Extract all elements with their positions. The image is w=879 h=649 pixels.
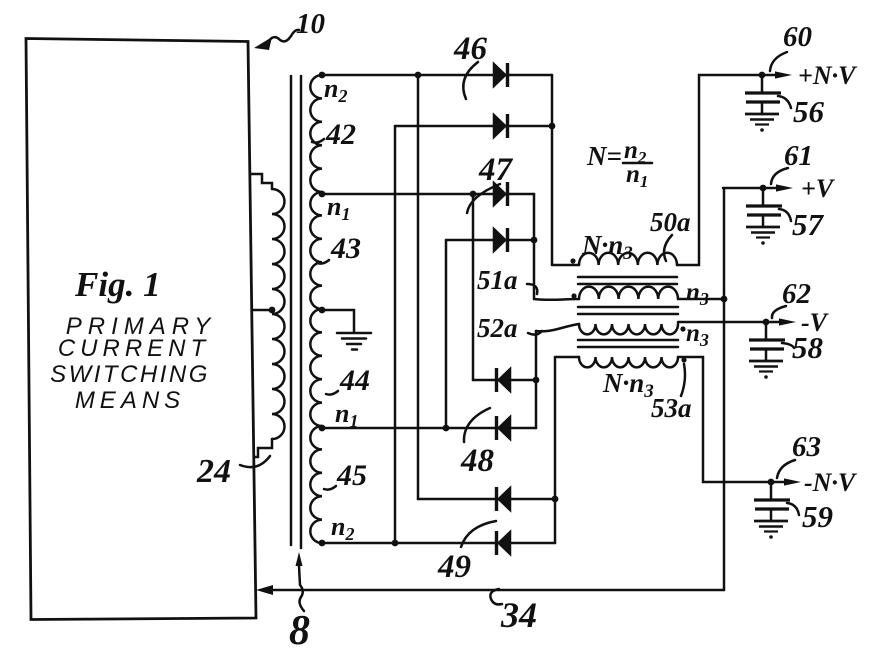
- leader 51a: [527, 284, 537, 294]
- svg-text:52a: 52a: [477, 313, 518, 343]
- wire: lead to winding 53a: [555, 356, 579, 359]
- wire: diode pair 46 common vertical: [551, 75, 554, 265]
- diode 48a: [497, 368, 511, 392]
- junction: primary center tap: [269, 307, 276, 314]
- svg-text:43: 43: [330, 232, 361, 265]
- svg-text:58: 58: [792, 330, 824, 365]
- coupled core bars 3a: [578, 339, 678, 342]
- wire row6: n1-bottom tap to diode 48b: [322, 427, 497, 430]
- junction: secondary center tap: [319, 307, 326, 314]
- svg-text:SWITCHING: SWITCHING: [50, 361, 210, 388]
- capacitor 57 with ground: [746, 188, 782, 245]
- arrow output 60: [762, 71, 792, 78]
- wire: secondary center tap to ground: [322, 310, 354, 332]
- diode 47a: [494, 182, 508, 206]
- leader 63: [777, 460, 795, 478]
- transformer core line 2: [300, 76, 303, 548]
- wire: 50a to +N.V rail: [677, 75, 762, 265]
- arrow output 63: [771, 478, 801, 485]
- leader arc 46: [463, 62, 478, 99]
- winding 50a (N*n3): [579, 253, 677, 265]
- diode 49a: [497, 487, 511, 511]
- wire row7: diode 49a to common: [510, 498, 555, 501]
- svg-text:57: 57: [792, 207, 825, 242]
- primary winding of transformer: [272, 189, 285, 439]
- capacitor 59 with ground: [754, 482, 790, 539]
- wire row5: diode 48a to common: [510, 379, 536, 382]
- wire row1: diode 46a to common: [507, 74, 552, 77]
- svg-text:47: 47: [478, 152, 514, 188]
- wire row3: diode 47a to common: [507, 193, 534, 196]
- leader 53a: [681, 364, 685, 396]
- wire: +V feed vertical: [723, 188, 726, 590]
- terminal junction 61: [760, 185, 767, 192]
- wire: lead to winding 50a: [552, 264, 579, 267]
- arrow output 62: [766, 318, 796, 325]
- arrowhead into box: [256, 585, 273, 595]
- terminal junction 62: [763, 319, 770, 326]
- polarity dot 52a: [680, 326, 685, 331]
- leader 50a: [664, 235, 672, 261]
- wire row8: n2-bottom to diode 49b: [322, 542, 497, 545]
- junction row2-common: [549, 123, 556, 130]
- capacitor 58 with ground: [749, 322, 785, 379]
- wire row3: n1-top tap to diode 47a: [322, 193, 494, 196]
- box: primary current switching means (10): [26, 39, 256, 620]
- svg-text:48: 48: [460, 443, 494, 479]
- wire row2-output: pair47 down to +V: [723, 187, 763, 190]
- wire: n2-top to diode row7 (vertical): [417, 75, 420, 499]
- wire: box to primary top: [250, 174, 272, 189]
- svg-text:56: 56: [793, 94, 825, 129]
- diode 49b: [497, 531, 511, 555]
- junction on row1: [415, 72, 422, 79]
- wire: diode pair 48 common vertical: [535, 331, 538, 428]
- wire row8: diode 49b to common: [510, 542, 555, 545]
- svg-text:49: 49: [437, 549, 471, 585]
- wire: n1-top to diode row5 (vertical): [472, 194, 475, 380]
- leader 58: [782, 343, 794, 348]
- wire: diode pair 49 common vertical: [554, 357, 557, 543]
- svg-text:Fig. 1: Fig. 1: [74, 265, 161, 304]
- wire: primary center tap: [252, 309, 272, 312]
- terminal junction 63: [768, 479, 775, 486]
- svg-text:46: 46: [453, 31, 488, 67]
- junction row7-common: [552, 496, 559, 503]
- wire 34: feedback from +V to box: [272, 589, 724, 592]
- svg-text:+N·V: +N·V: [798, 61, 858, 90]
- svg-text:10: 10: [296, 8, 325, 40]
- polarity dot 50a: [570, 258, 575, 263]
- svg-text:42: 42: [325, 118, 356, 151]
- leader 59: [787, 503, 799, 515]
- leader dash 45: [324, 486, 336, 490]
- diode 47b: [494, 228, 508, 252]
- svg-text:45: 45: [336, 459, 367, 492]
- wire row7: corner to diode 49a: [418, 498, 497, 501]
- winding 52a (n3): [579, 324, 678, 334]
- leader from 24 to primary: [240, 456, 270, 467]
- svg-text:CURRENT: CURRENT: [58, 335, 210, 362]
- wire: 52a to -V terminal: [678, 321, 766, 324]
- junction on row3: [470, 191, 477, 198]
- leader dash 43: [317, 260, 329, 264]
- secondary winding (sections 42/43/44/45): [310, 75, 322, 543]
- arrow output 61: [763, 184, 793, 191]
- leader arc 48: [464, 408, 490, 442]
- terminal junction 60: [759, 72, 766, 79]
- winding 51a (n3): [579, 287, 678, 299]
- leader 61: [771, 168, 788, 184]
- svg-text:60: 60: [783, 21, 812, 53]
- wire: lead to winding 51a: [534, 298, 579, 301]
- junction: n1-bottom tap: [319, 425, 326, 432]
- svg-text:-N·V: -N·V: [804, 468, 858, 497]
- wire: 53a right lead down to -N.V: [678, 357, 771, 482]
- svg-text:59: 59: [802, 499, 833, 534]
- ground symbol (secondary center): [337, 333, 371, 350]
- wire row1: n2-top to diode 46a: [322, 74, 494, 77]
- junction: secondary bottom: [319, 540, 326, 547]
- svg-text:N=: N=: [586, 141, 622, 171]
- svg-text:+V: +V: [801, 174, 836, 203]
- leader 56: [778, 96, 791, 108]
- svg-text:44: 44: [339, 364, 370, 397]
- wire row2: diode 46b to common: [507, 125, 552, 128]
- leader 60: [770, 52, 787, 71]
- coupled core bars 3b: [578, 346, 678, 349]
- diode 46b: [494, 114, 508, 138]
- wire: primary bottom to box: [254, 439, 272, 457]
- junction row4-common: [531, 237, 538, 244]
- junction row8 x395: [392, 540, 399, 547]
- transformer core line 1: [290, 76, 293, 545]
- svg-text:MEANS: MEANS: [75, 387, 185, 414]
- winding 53a (N*n3): [579, 357, 678, 367]
- arrow 8 pointing at transformer: [296, 552, 305, 611]
- leader 57: [779, 209, 791, 221]
- svg-text:8: 8: [289, 608, 310, 649]
- svg-text:50a: 50a: [650, 207, 691, 237]
- wire row4: diode 47b to common: [507, 239, 534, 242]
- leader arrow to 10 (points to box corner): [254, 30, 299, 50]
- wire: n2-bottom to diode row2 (vertical): [394, 126, 397, 543]
- leader arc 49: [461, 521, 496, 547]
- junction row5-common: [533, 377, 540, 384]
- wire row2: corner to diode 46b: [395, 125, 494, 128]
- svg-text:53a: 53a: [651, 393, 692, 423]
- leader dash 44: [326, 391, 338, 395]
- leader dash 42: [312, 139, 324, 143]
- svg-text:24: 24: [196, 453, 231, 490]
- leader squiggle 34: [490, 589, 502, 604]
- svg-text:34: 34: [500, 595, 537, 635]
- wire: n1-bottom to diode row4 (vertical): [445, 240, 448, 428]
- coupled core bars 2a: [578, 306, 678, 309]
- equation N = n2/n1: [586, 137, 652, 191]
- junction: 51a to +V vertical: [721, 296, 728, 303]
- coupled core bars 2b: [578, 313, 678, 316]
- wire: 51a right lead: [678, 298, 724, 301]
- polarity dot 51a: [571, 293, 576, 298]
- diode 46a: [494, 63, 508, 87]
- svg-text:51a: 51a: [477, 265, 518, 295]
- wire row4: corner to diode 47b: [446, 239, 494, 242]
- capacitor 56 with ground: [745, 75, 781, 132]
- coupled core bars 1b: [578, 283, 677, 286]
- junction: secondary top: [319, 72, 326, 79]
- svg-text:63: 63: [792, 431, 821, 463]
- polarity dot 53a: [681, 357, 686, 362]
- wire: lead to winding 52a: [536, 324, 579, 331]
- leader arc 47: [467, 184, 500, 213]
- junction row6 x446: [443, 425, 450, 432]
- wire row5: corner to diode 48a: [473, 379, 497, 382]
- leader 62: [772, 306, 786, 318]
- wire: diode pair 47 common vertical: [533, 194, 536, 299]
- leader 52a: [528, 331, 542, 335]
- diode 48b: [497, 416, 511, 440]
- coupled core bars 1a: [578, 276, 677, 279]
- wire row6: diode 48b to common: [510, 427, 536, 430]
- junction: n1-top tap: [319, 191, 326, 198]
